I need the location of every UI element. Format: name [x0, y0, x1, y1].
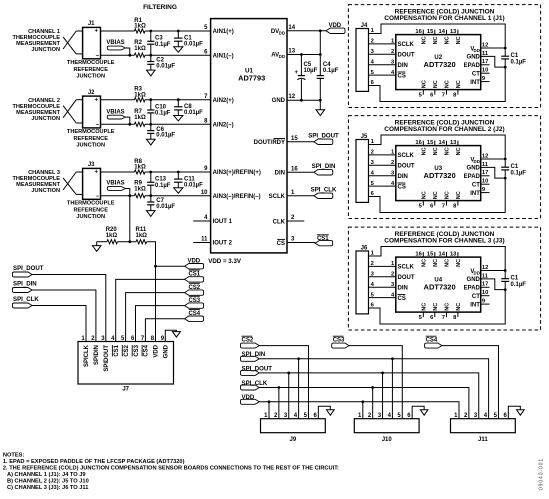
svg-text:10: 10 [201, 190, 208, 196]
svg-text:C1: C1 [511, 276, 519, 282]
junction SPI_DIN J10 pin4 [391, 357, 394, 360]
svg-text:SCLK: SCLK [398, 153, 415, 159]
svg-text:NC: NC [422, 36, 428, 44]
svg-text:AIN2(+): AIN2(+) [213, 98, 234, 104]
U2 pin 11 GND wire [481, 56, 506, 67]
svg-text:DD: DD [279, 54, 285, 59]
svg-text:2: 2 [391, 160, 394, 166]
svg-text:10µF: 10µF [304, 68, 318, 74]
svg-text:+: + [95, 97, 99, 103]
svg-text:13: 13 [450, 29, 457, 35]
junction top shunt cap [177, 98, 180, 101]
svg-text:J1: J1 [88, 21, 95, 27]
svg-text:C13: C13 [155, 177, 167, 183]
svg-text:1kΩ: 1kΩ [136, 233, 148, 239]
svg-text:VBIAS: VBIAS [106, 109, 124, 115]
wire J4 pin 5 to U2 pin 4 [369, 74, 396, 76]
svg-text:SCLK: SCLK [398, 265, 415, 271]
svg-text:J6: J6 [361, 246, 368, 252]
wire CS1 to J7 [116, 279, 185, 341]
J9 pin6 ground wire [318, 406, 330, 418]
svg-text:NC: NC [422, 147, 428, 155]
temperature sensor U3 ADT7320 body [396, 146, 481, 201]
svg-text:1. EPAD = EXPOSED PADDLE OF TH: 1. EPAD = EXPOSED PADDLE OF THE LFCSP PA… [3, 459, 185, 465]
svg-text:10: 10 [482, 68, 488, 74]
svg-text:JUNCTION: JUNCTION [31, 116, 60, 122]
wire J6 pin6 GND loop bottom [369, 290, 506, 324]
svg-text:1kΩ: 1kΩ [134, 92, 146, 98]
svg-text:1kΩ: 1kΩ [134, 24, 146, 30]
capacitor C10 0.1uF series [150, 100, 152, 110]
wire AVDD pin13 [287, 54, 320, 56]
wire resistor to U1 AIN+ [145, 171, 211, 173]
wire VDD tag left [156, 265, 185, 267]
wire SPI_DIN to J9 pin4 [298, 359, 300, 419]
wire SPI_CLK to J7 pin1 [32, 306, 86, 342]
wire SPI_DIN to J7 pin2 [32, 290, 96, 342]
svg-text:NC: NC [433, 36, 439, 44]
svg-text:NC: NC [433, 303, 439, 311]
wire VDD to J9 pin1 [268, 402, 270, 419]
svg-text:NC: NC [433, 80, 439, 88]
wire CS to CS1 tag [287, 242, 315, 244]
junction top series cap [149, 171, 152, 174]
junction SPI_CLK J9 pin2 [277, 386, 280, 389]
net label SPI_DIN [314, 170, 333, 175]
wire R11 to VDD vertical [147, 242, 156, 342]
capacitor C1 0.01uF to ground [177, 31, 179, 38]
svg-text:JUNCTION: JUNCTION [76, 74, 105, 80]
U3 pin 10 CT stub [481, 183, 490, 185]
capacitor C5 10uF [300, 55, 302, 76]
capacitor C8 0.01uF to ground [177, 100, 179, 107]
svg-text:DOUT: DOUT [398, 53, 415, 59]
svg-text:DIN: DIN [398, 174, 408, 180]
ground below C11 [174, 188, 183, 193]
ground below C6 [147, 139, 156, 145]
ground at J7 pin 9 [172, 332, 180, 338]
U1 pin 11 IOUT2 stub wire [193, 242, 210, 244]
svg-text:DD: DD [474, 270, 480, 275]
svg-text:0.01µF: 0.01µF [156, 64, 175, 70]
svg-text:NC: NC [433, 259, 439, 267]
svg-text:+: + [95, 29, 99, 35]
capacitor C6 0.01uF below [150, 124, 152, 130]
svg-text:NC: NC [445, 36, 451, 44]
svg-text:11: 11 [482, 51, 489, 57]
wire SPI_DOUT to J10 pin3 [382, 373, 384, 419]
svg-text:VBIAS: VBIAS [106, 181, 124, 187]
svg-text:REFERENCE: REFERENCE [73, 136, 108, 142]
dashed box reference junction channel 3 [348, 227, 540, 330]
svg-text:INT: INT [470, 191, 480, 197]
svg-text:0.01µF: 0.01µF [184, 41, 203, 47]
wire R20 to R11 [118, 241, 137, 243]
svg-text:DOUT: DOUT [398, 164, 415, 170]
svg-text:COMPENSATION FOR CHANNEL 2 (J2: COMPENSATION FOR CHANNEL 2 (J2) [384, 126, 504, 133]
svg-text:+: + [294, 70, 298, 76]
wire J1 bottom to AIN- [101, 54, 135, 56]
svg-text:12: 12 [482, 265, 488, 271]
svg-text:AIN2(–): AIN2(–) [213, 122, 234, 128]
junction on DVDD wire [319, 29, 322, 32]
svg-text:SPI_DIN: SPI_DIN [242, 351, 266, 358]
svg-text:C1: C1 [511, 53, 519, 59]
svg-text:2. THE REFERENCE (COLD) JUNCTI: 2. THE REFERENCE (COLD) JUNCTION COMPENS… [3, 466, 339, 472]
connector J2 [83, 96, 101, 128]
svg-text:AIN3(–)/REFIN(–): AIN3(–)/REFIN(–) [213, 194, 261, 200]
svg-text:VDD: VDD [187, 259, 200, 265]
svg-text:14: 14 [439, 252, 446, 258]
svg-text:17: 17 [482, 59, 488, 65]
wire SCLK to SPI_CLK tag [287, 195, 314, 197]
junction bottom series cap [149, 54, 152, 57]
U3 top pin 16 NC [422, 141, 424, 146]
svg-text:NC: NC [422, 80, 428, 88]
svg-text:CS3: CS3 [188, 298, 200, 304]
U3 pin 9 INT stub [481, 192, 490, 194]
svg-text:CS1: CS1 [114, 344, 120, 356]
junction VDD J9 pin1 [268, 400, 271, 403]
svg-text:JUNCTION: JUNCTION [31, 188, 60, 194]
U4 bottom pin 6 NC [434, 312, 436, 317]
wire VBIAS to bottom wire [126, 48, 130, 55]
svg-text:15: 15 [291, 136, 298, 142]
U4 top pin 13 NC [457, 252, 459, 257]
svg-text:THERMOCOUPLE: THERMOCOUPLE [67, 129, 115, 135]
svg-text:2: 2 [391, 49, 394, 55]
svg-text:15: 15 [427, 140, 434, 146]
svg-text:NC: NC [445, 303, 451, 311]
svg-text:+: + [95, 170, 99, 176]
svg-text:DIN: DIN [275, 171, 285, 177]
wire J4 pin1 VDD loop top [369, 24, 506, 48]
svg-text:−: − [95, 53, 99, 59]
ground below C1 [174, 47, 183, 52]
capacitor C1 0.1uF bypass U4 [504, 271, 506, 279]
svg-text:11: 11 [482, 273, 489, 279]
capacitor C13 0.1uF series [150, 172, 152, 182]
svg-text:COMPENSATION FOR CHANNEL 3 (J3: COMPENSATION FOR CHANNEL 3 (J3) [384, 237, 504, 244]
wire J6 pin 5 to U4 pin 4 [369, 297, 396, 299]
net label CS1 stack [185, 277, 204, 282]
wire SPI_CLK to J10 pin2 [372, 388, 374, 419]
capacitor C1 0.1uF bypass U2 [504, 48, 506, 56]
svg-text:CS: CS [398, 73, 406, 79]
dashed box reference junction channel 2 [348, 116, 540, 219]
svg-text:J4: J4 [361, 23, 368, 29]
svg-text:12: 12 [288, 94, 295, 100]
svg-text:NC: NC [445, 259, 451, 267]
svg-text:ADT7320: ADT7320 [424, 171, 456, 180]
svg-text:DD: DD [279, 31, 285, 36]
ground at J11 [517, 410, 525, 415]
svg-text:CS2: CS2 [188, 285, 200, 291]
thermocouple junction X symbol J3 [63, 172, 76, 190]
svg-text:SCLK: SCLK [269, 194, 286, 200]
net label CS3 stack [185, 303, 204, 308]
svg-text:J9: J9 [290, 437, 297, 443]
resistor R2 1k [134, 53, 145, 57]
net label VDD right stack [185, 264, 204, 269]
svg-text:AIN1(–): AIN1(–) [213, 53, 234, 59]
svg-text:0.01µF: 0.01µF [156, 133, 175, 139]
svg-text:NC: NC [422, 191, 428, 199]
junction VDD J10 pin1 [361, 400, 364, 403]
svg-text:NC: NC [456, 80, 462, 88]
ground symbol below C4 [319, 100, 321, 110]
svg-text:0.1µF: 0.1µF [155, 42, 171, 48]
svg-text:A) CHANNEL 1 (J1): J4 TO J9: A) CHANNEL 1 (J1): J4 TO J9 [7, 472, 86, 478]
U4 pin 9 INT stub [481, 303, 490, 305]
svg-text:SPI_DOUT: SPI_DOUT [308, 132, 339, 139]
svg-text:J3: J3 [88, 162, 95, 168]
svg-text:0.1µF: 0.1µF [511, 282, 527, 288]
wire J6 pin 4 to U4 pin 3 [369, 286, 396, 288]
wire J5 pin1 VDD loop top [369, 135, 506, 159]
U4 pin 11 GND wire [481, 279, 506, 290]
svg-text:CS1: CS1 [188, 272, 200, 278]
svg-text:12: 12 [482, 153, 488, 159]
resistor R11 1k [136, 240, 147, 244]
svg-text:0.1µF: 0.1µF [155, 183, 171, 189]
U4 pin 12 VDD wire [481, 270, 506, 272]
svg-text:NC: NC [456, 191, 462, 199]
ground at J10 [420, 410, 428, 415]
svg-text:J5: J5 [361, 134, 368, 140]
ground below C2 [147, 70, 156, 76]
wire J6 pin 3 to U4 pin 2 [369, 276, 396, 278]
svg-text:GND: GND [467, 166, 481, 172]
junction SPI_CLK J10 pin2 [371, 386, 374, 389]
dashed box reference junction channel 1 [348, 5, 540, 108]
ground below C7 [147, 211, 156, 217]
ground below C8 [174, 116, 183, 121]
svg-text:NC: NC [445, 80, 451, 88]
wire bottom resistor to U1 AIN- [145, 54, 211, 56]
wire J5 pin 3 to U3 pin 2 [369, 164, 396, 166]
svg-text:GND: GND [467, 55, 481, 61]
svg-text:15: 15 [427, 252, 434, 258]
svg-text:DD: DD [474, 48, 480, 53]
svg-text:0.1µF: 0.1µF [155, 111, 171, 117]
junction SPI_DOUT J10 pin3 [381, 372, 384, 375]
wire ground to R20 [97, 241, 107, 243]
wire SPI_DIN to J10 pin4 [391, 359, 393, 419]
svg-text:SPIDIN: SPIDIN [94, 345, 100, 365]
svg-text:7: 7 [442, 204, 445, 210]
svg-text:NC: NC [456, 36, 462, 44]
wire VBIAS to bottom wire [126, 189, 130, 196]
wire J4 pin 2 to U2 pin 1 [369, 43, 396, 45]
svg-text:11: 11 [482, 162, 489, 168]
wire SPI_CLK to J9 pin2 [278, 388, 280, 419]
svg-text:VDD: VDD [328, 23, 341, 29]
svg-text:12: 12 [482, 42, 488, 48]
U4 top pin 16 NC [422, 252, 424, 257]
svg-text:NC: NC [422, 303, 428, 311]
U2 pin 12 VDD wire [481, 47, 506, 49]
wire J2 top to AIN [101, 99, 135, 101]
U3 bottom pin 6 NC [434, 201, 436, 206]
svg-text:VDD = 3.3V: VDD = 3.3V [208, 258, 242, 265]
svg-text:C10: C10 [155, 104, 167, 110]
svg-text:CS1: CS1 [317, 236, 329, 242]
svg-text:SPI_DOUT: SPI_DOUT [13, 265, 44, 272]
svg-text:2: 2 [391, 272, 394, 278]
U3 top pin 15 NC [434, 141, 436, 146]
J7 pin 9 GND wire to ground [165, 330, 176, 341]
junction bottom series cap [149, 123, 152, 126]
U2 bottom pin 5 NC [422, 90, 424, 95]
svg-text:15: 15 [427, 29, 434, 35]
wire J1 top to AIN [101, 30, 135, 32]
svg-text:11: 11 [201, 237, 208, 243]
svg-text:NC: NC [445, 191, 451, 199]
svg-text:16: 16 [415, 29, 422, 35]
svg-text:14: 14 [439, 140, 446, 146]
junction top series cap [149, 30, 152, 33]
svg-text:INT: INT [470, 80, 480, 86]
connector J1 [83, 27, 101, 58]
wire CS3 to J7 [136, 306, 185, 342]
svg-text:16: 16 [415, 140, 422, 146]
svg-text:NC: NC [433, 191, 439, 199]
resistor R20 1k [107, 240, 118, 244]
svg-text:C3: C3 [155, 36, 163, 42]
svg-text:CS: CS [398, 296, 406, 302]
junction VBIAS bottom wire [128, 54, 131, 57]
svg-text:J11: J11 [478, 437, 488, 443]
U2 pin 9 INT stub [481, 81, 490, 83]
svg-text:VBIAS: VBIAS [106, 40, 124, 46]
wire J4 pin 3 to U2 pin 2 [369, 53, 396, 55]
svg-text:DIN: DIN [398, 63, 408, 69]
svg-text:NC: NC [456, 147, 462, 155]
svg-text:DOUT/RDY: DOUT/RDY [254, 140, 285, 146]
wire DIN to SPI_DIN tag [287, 171, 314, 173]
svg-text:THERMOCOUPLE: THERMOCOUPLE [67, 201, 115, 207]
J10 pin6 ground wire [412, 406, 424, 418]
wire VDD rail [259, 402, 459, 419]
wire bottom resistor to U1 AIN- [145, 195, 211, 197]
svg-text:GND: GND [272, 98, 286, 104]
junction bottom series cap [149, 194, 152, 197]
ground left of R20 [96, 242, 98, 246]
svg-text:ADT7320: ADT7320 [424, 283, 456, 292]
svg-text:AD7793: AD7793 [238, 73, 265, 82]
svg-text:CT: CT [472, 294, 480, 300]
svg-text:ADT7320: ADT7320 [424, 60, 456, 69]
svg-text:JUNCTION: JUNCTION [76, 143, 105, 149]
svg-text:J7: J7 [122, 387, 129, 393]
svg-text:14: 14 [288, 25, 295, 31]
J11 pin6 ground wire [508, 406, 520, 418]
wire J6 pin1 VDD loop top [369, 247, 506, 271]
svg-text:REFERENCE: REFERENCE [73, 67, 108, 73]
svg-text:CS4: CS4 [144, 344, 150, 356]
wire J5 pin 2 to U3 pin 1 [369, 154, 396, 156]
U2 pin 17 EPAD stub [481, 64, 490, 66]
svg-text:1kΩ: 1kΩ [134, 115, 146, 121]
capacitor C7 0.01uF below [150, 196, 152, 202]
svg-text:0.01µF: 0.01µF [184, 110, 203, 116]
wire SPI_DOUT to J7 pin3 [32, 275, 106, 342]
svg-text:10: 10 [482, 290, 488, 296]
junction R20 R11 VBIAS [128, 240, 131, 243]
wire SPI_DOUT to J9 pin3 [288, 373, 290, 419]
svg-text:NC: NC [445, 147, 451, 155]
svg-text:GND: GND [164, 344, 170, 358]
connector J4 [356, 29, 369, 92]
resistor R9 1k [134, 194, 145, 198]
svg-text:CS3: CS3 [134, 344, 140, 356]
capacitor C2 0.01uF below [150, 55, 152, 61]
svg-text:13: 13 [450, 140, 457, 146]
wire resistor to U1 AIN+ [145, 99, 211, 101]
wire SPI_DOUT rail [259, 373, 478, 419]
svg-text:1kΩ: 1kΩ [106, 233, 118, 239]
svg-text:THERMOCOUPLE: THERMOCOUPLE [67, 60, 115, 66]
svg-text:13: 13 [450, 252, 457, 258]
svg-text:0.1µF: 0.1µF [323, 68, 339, 74]
svg-text:0.01µF: 0.01µF [156, 204, 175, 210]
temperature sensor U4 ADT7320 body [396, 257, 481, 312]
svg-text:7: 7 [442, 93, 445, 99]
U4 bottom pin 5 NC [422, 312, 424, 317]
connector J6 [356, 251, 369, 314]
U3 pin 11 GND wire [481, 167, 506, 178]
wire GND pin12 [287, 99, 320, 101]
svg-text:CS: CS [398, 184, 406, 190]
svg-text:NC: NC [433, 147, 439, 155]
svg-text:SPI_DIN: SPI_DIN [13, 281, 37, 288]
svg-text:CS4: CS4 [188, 311, 200, 317]
svg-text:SPICLK: SPICLK [84, 344, 90, 367]
svg-text:VDD: VDD [154, 344, 160, 357]
svg-text:10: 10 [482, 179, 488, 185]
svg-text:16: 16 [415, 252, 422, 258]
U1 pin 4 IOUT1 stub wire [193, 220, 210, 222]
wire DVDD pin14 to VDD tag [287, 30, 326, 32]
svg-text:16: 16 [291, 166, 298, 172]
junction AVDD C4 [319, 53, 322, 56]
U3 top pin 13 NC [457, 141, 459, 146]
svg-text:17: 17 [482, 170, 488, 176]
net label VDD top [326, 28, 345, 33]
wire J6 pin 2 to U4 pin 1 [369, 265, 396, 267]
connector J5 [356, 140, 369, 203]
capacitor C3 0.1uF series [150, 31, 152, 41]
U4 top pin 15 NC [434, 252, 436, 257]
svg-text:0.1µF: 0.1µF [511, 171, 527, 177]
net label CS4 stack [185, 316, 204, 321]
U2 bottom pin 8 NC [457, 90, 459, 95]
svg-text:1kΩ: 1kΩ [134, 186, 146, 192]
svg-text:1kΩ: 1kΩ [134, 165, 146, 171]
U2 top pin 13 NC [457, 30, 459, 35]
svg-text:JUNCTION: JUNCTION [76, 214, 105, 220]
svg-text:SPI_DIN: SPI_DIN [312, 163, 336, 170]
capacitor C4 0.1uF [319, 55, 321, 76]
connector J10 body [354, 419, 419, 433]
svg-text:IOUT 1: IOUT 1 [213, 219, 233, 225]
wire resistor to U1 AIN+ [145, 30, 211, 32]
wire CS3 to J10 pin5 [349, 346, 402, 419]
U3 bottom pin 5 NC [422, 201, 424, 206]
svg-text:−: − [95, 123, 99, 129]
svg-text:C) CHANNEL 3 (J3): J6 TO J11: C) CHANNEL 3 (J3): J6 TO J11 [7, 485, 88, 491]
